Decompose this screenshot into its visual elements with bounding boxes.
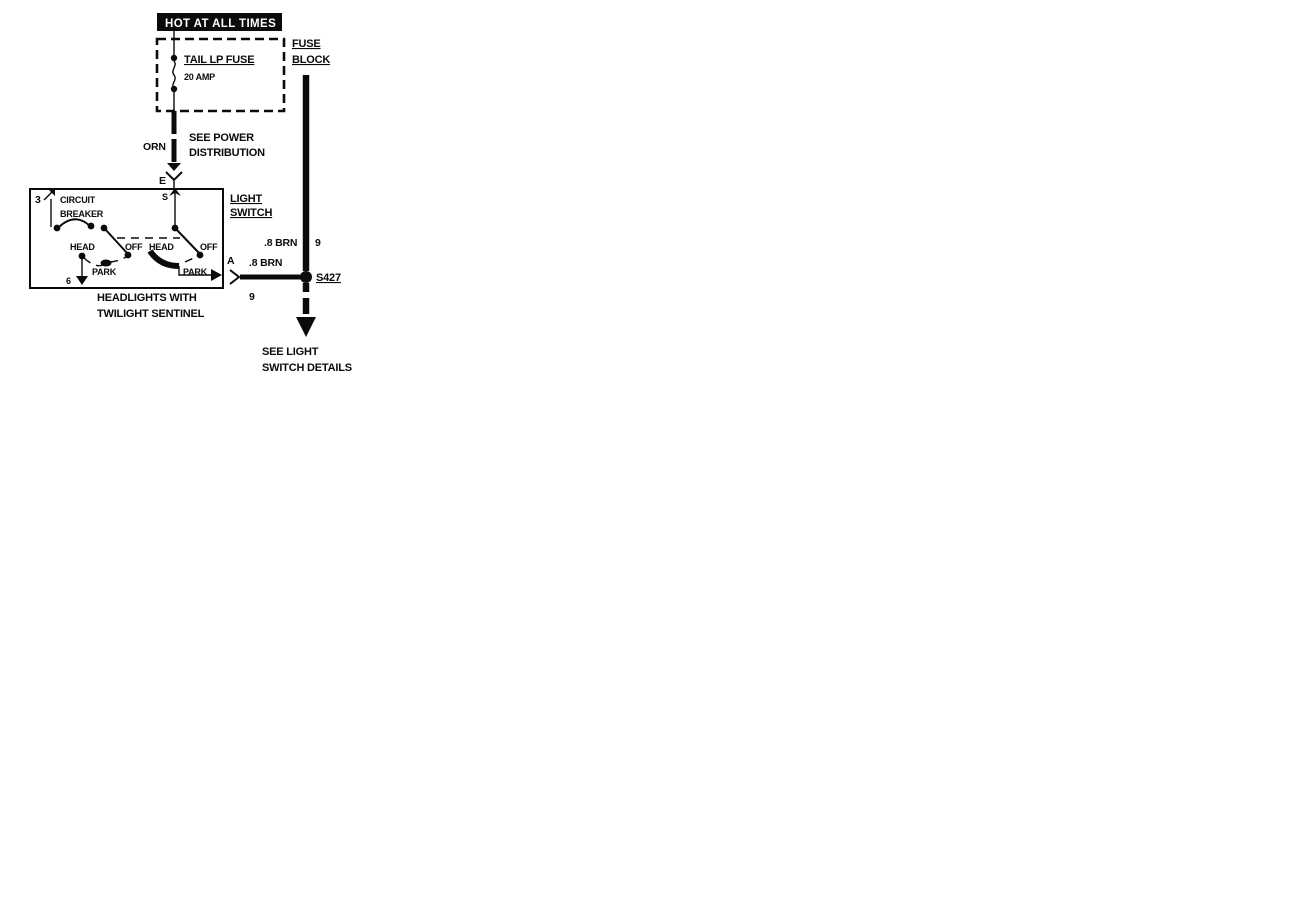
svg-text:9: 9: [315, 237, 321, 249]
connector E into light switch: [167, 163, 181, 171]
svg-text:SWITCH DETAILS: SWITCH DETAILS: [262, 362, 352, 374]
wire .8 BRN 9 (A to S427): [240, 275, 302, 280]
SEC1: [30, 75, 352, 374]
splice S427: [300, 271, 312, 283]
circuit breaker: [50, 199, 52, 227]
wire from hot bus to fuse: [173, 31, 175, 57]
wiper heavy arc (head-park): [150, 251, 179, 266]
svg-text:SWITCH: SWITCH: [230, 207, 272, 219]
svg-text:.8 BRN: .8 BRN: [264, 237, 297, 249]
wire .8 BRN 9 vertical to fuse block top: [303, 75, 310, 271]
svg-text:S427: S427: [316, 272, 341, 284]
svg-text:OFF: OFF: [125, 242, 143, 252]
svg-text:TAIL LP FUSE: TAIL LP FUSE: [184, 54, 254, 66]
svg-text:CIRCUIT: CIRCUIT: [60, 195, 96, 205]
svg-text:HOT AT ALL TIMES: HOT AT ALL TIMES: [165, 18, 276, 30]
svg-text:SEE POWER: SEE POWER: [189, 132, 254, 144]
fuse block (tail lp) dashed box: [157, 39, 284, 111]
svg-text:FUSE: FUSE: [292, 38, 321, 50]
light switch box: [30, 189, 223, 288]
left switch blade: [105, 229, 127, 253]
svg-text:TWILIGHT SENTINEL: TWILIGHT SENTINEL: [97, 308, 205, 320]
svg-text:LIGHT: LIGHT: [230, 193, 262, 205]
svg-text:9: 9: [249, 291, 255, 303]
wire down from S427 (dashed) to see light switch details: [303, 283, 310, 292]
svg-text:HEAD: HEAD: [70, 242, 95, 252]
svg-text:BLOCK: BLOCK: [292, 54, 330, 66]
svg-text:20 AMP: 20 AMP: [184, 72, 215, 82]
PARK contact (left): [84, 258, 103, 266]
svg-text:3: 3: [35, 194, 41, 206]
svg-text:6: 6: [66, 276, 71, 286]
svg-text:HEADLIGHTS WITH: HEADLIGHTS WITH: [97, 292, 197, 304]
svg-text:OFF: OFF: [200, 242, 218, 252]
svg-text:S: S: [162, 192, 168, 202]
mechanical link dashed: [117, 237, 180, 239]
fuse TAIL LP FUSE 20 AMP: [171, 55, 177, 61]
svg-text:A: A: [227, 255, 235, 267]
svg-text:DISTRIBUTION: DISTRIBUTION: [189, 147, 265, 159]
svg-text:.8 BRN: .8 BRN: [249, 257, 282, 269]
right switch blade: [176, 229, 199, 253]
svg-text:E: E: [159, 175, 166, 187]
svg-text:BREAKER: BREAKER: [60, 209, 104, 219]
terminal 6 arrow down: [81, 258, 83, 278]
svg-text:PARK: PARK: [92, 267, 117, 277]
svg-text:SEE LIGHT: SEE LIGHT: [262, 346, 319, 358]
wire ORN 40 (fuse output): [172, 111, 177, 134]
power label HOT AT ALL TIMES (left): [157, 13, 282, 31]
park output wire to A: [179, 266, 213, 275]
svg-text:ORN: ORN: [143, 141, 166, 153]
